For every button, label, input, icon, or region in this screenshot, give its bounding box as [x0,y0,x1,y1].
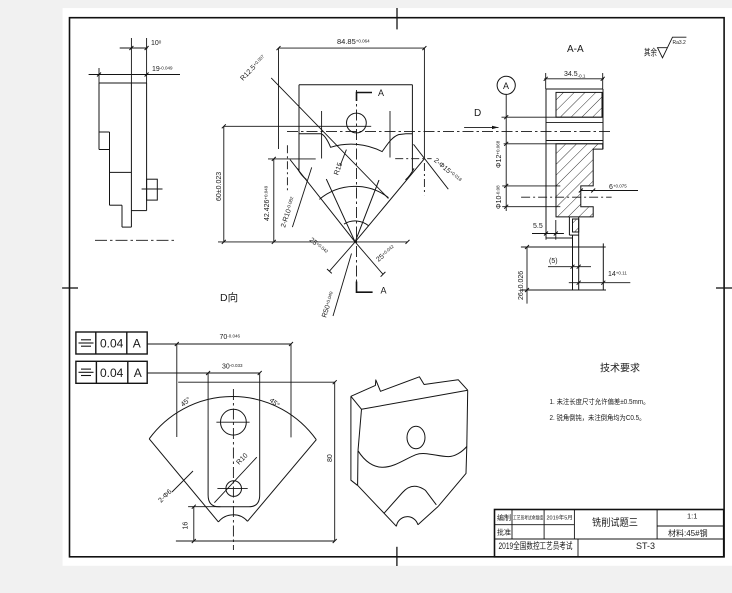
svg-text:5.5: 5.5 [533,223,543,230]
svg-text:铣削试题三: 铣削试题三 [592,516,638,529]
svg-text:材料:45#钢: 材料:45#钢 [668,528,708,538]
svg-text:26±0.026: 26±0.026 [518,271,525,300]
svg-text:2. 锐角倒钝，未注倒角均为C0.5。: 2. 锐角倒钝，未注倒角均为C0.5。 [550,413,646,422]
svg-text:A: A [381,286,387,296]
svg-text:A: A [503,81,509,91]
svg-text:A: A [134,366,142,380]
svg-text:A: A [133,337,141,351]
svg-text:1:1: 1:1 [687,512,697,521]
svg-text:60±0.023: 60±0.023 [216,172,223,201]
svg-text:工艺员考试命题组: 工艺员考试命题组 [513,515,543,522]
svg-text:编制: 编制 [497,513,511,522]
svg-text:Ra3.2: Ra3.2 [673,40,687,46]
svg-text:D: D [474,108,481,119]
svg-text:其余: 其余 [644,47,657,58]
svg-text:A-A: A-A [567,44,584,55]
svg-text:D向: D向 [220,291,238,304]
svg-text:(5): (5) [549,258,558,265]
svg-text:16: 16 [183,522,190,530]
svg-text:0.04: 0.04 [100,337,124,351]
svg-text:批准: 批准 [497,528,511,537]
svg-text:2019全国数控工艺员考试: 2019全国数控工艺员考试 [499,540,573,551]
svg-text:2019年5月: 2019年5月 [547,514,573,522]
svg-text:0.04: 0.04 [100,366,124,380]
svg-text:A: A [378,88,384,98]
svg-text:1. 未注长度尺寸允许偏差±0.5mm。: 1. 未注长度尺寸允许偏差±0.5mm。 [550,397,650,406]
svg-text:ST-3: ST-3 [636,541,655,551]
svg-text:80: 80 [327,454,334,462]
svg-text:技术要求: 技术要求 [600,362,640,375]
